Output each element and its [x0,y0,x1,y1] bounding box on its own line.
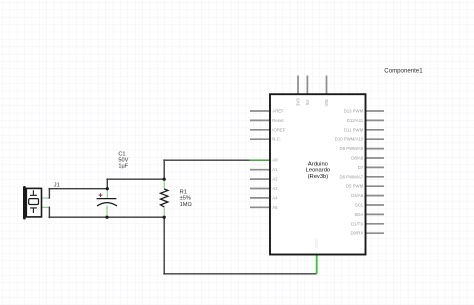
wire bottom rail C1 to R1 [107,216,164,218]
pin D10 PWM/A10 [366,138,385,140]
svg-text:VIN: VIN [324,99,329,106]
pin D7 [366,166,385,168]
pin 2 of J1 [42,206,49,208]
svg-text:D10 PWM/A10: D10 PWM/A10 [335,137,364,142]
pin D9 PWM/A9 [366,148,385,150]
svg-text:D0/RX: D0/RX [351,231,364,236]
pin A4 [250,197,270,199]
svg-text:A4: A4 [272,195,278,200]
svg-text:D13 PWM: D13 PWM [344,109,364,114]
svg-text:A1: A1 [272,167,278,172]
pin - of C1 [106,206,108,218]
junction C1 bottom [105,216,108,219]
pin A5 [250,206,270,208]
pin GND connected [316,255,318,274]
svg-text:D7: D7 [358,165,364,170]
wire R1 top junction to Arduino A0 [163,159,249,179]
piezo J1 [23,186,49,220]
pin A0 connected [250,159,271,161]
right pin labels [335,109,364,236]
Arduino U1 Componente1 [250,76,385,274]
resistor R1 [161,179,168,217]
pin D5 PWM [366,185,385,187]
svg-text:D11 PWM: D11 PWM [344,127,364,132]
curved plate [97,203,117,206]
svg-text:Reset: Reset [272,118,284,123]
svg-text:Componente1: Componente1 [384,68,423,75]
svg-text:(Rev3b): (Rev3b) [308,174,329,180]
left pin labels [272,109,286,210]
junction C1 top [106,187,109,190]
pin D4/A6 [366,195,385,197]
svg-text:D4/A6: D4/A6 [351,193,364,198]
svg-text:GND: GND [314,238,319,248]
pin VIN [326,76,328,95]
pin AREF [250,110,270,112]
svg-text:Arduino: Arduino [308,162,328,168]
svg-text:1µF: 1µF [118,163,128,169]
wire C1 top junction to R1 top junction [106,178,164,189]
svg-text:5V: 5V [305,100,310,105]
junction R1 bottom [163,216,166,219]
pin A2 [250,178,270,180]
svg-text:A0: A0 [272,158,278,163]
wire J1 bottom pin to bottom rail [48,207,107,218]
top plate [97,198,117,200]
pin D12/A11 [366,119,385,121]
pin 1 of R1 [163,179,165,189]
plus sign [99,193,103,197]
pin A1 [250,169,270,171]
top pin labels [296,98,330,107]
pin D1/TX [366,223,385,225]
pin A3 [250,188,270,190]
svg-text:J1: J1 [54,182,60,188]
pin D13 PWM [366,110,385,112]
top electrode [30,190,37,195]
svg-text:D8/A8: D8/A8 [351,156,364,161]
pin N.C. [250,138,270,140]
svg-text:Leonardo: Leonardo [306,168,331,174]
svg-text:SCL: SCL [355,203,364,208]
svg-text:A2: A2 [272,177,278,182]
svg-text:1MΩ: 1MΩ [180,202,192,208]
pin SDA [366,213,385,215]
pin + of C1 [106,189,108,198]
svg-text:R1: R1 [180,189,187,195]
chip body [270,94,366,254]
svg-text:D1/TX: D1/TX [351,221,363,226]
pin D6 PWM/A7 [366,176,385,178]
svg-text:A5: A5 [272,205,278,210]
svg-text:D5 PWM: D5 PWM [346,184,364,189]
svg-text:D12/A11: D12/A11 [347,118,364,123]
pin D0/RX [366,232,385,234]
svg-text:3V3: 3V3 [296,98,301,106]
wire J1 top pin to C1 top junction [48,188,107,198]
pin Reset [250,119,270,121]
body [26,188,41,217]
svg-text:N.C.: N.C. [272,137,281,142]
pin IOREF [250,129,270,131]
bottom electrode [30,208,37,213]
pin D8/A8 [366,157,385,159]
svg-text:A3: A3 [272,186,278,191]
svg-text:D9 PWM/A9: D9 PWM/A9 [340,146,364,151]
svg-text:D6 PWM/A7: D6 PWM/A7 [340,174,364,179]
wire R1 bottom junction to Arduino GND [163,217,317,275]
pin 1 of J1 [42,197,49,199]
svg-text:SDA: SDA [354,212,363,217]
zigzag [161,189,168,207]
svg-text:AREF: AREF [272,109,284,114]
pin 5V [306,76,308,95]
capacitor C1 [97,189,117,218]
crystal slab [29,199,39,205]
svg-text:±5%: ±5% [180,196,191,202]
pin SCL [366,204,385,206]
junction R1 top [163,178,166,181]
diaphragm bar [23,186,26,220]
chip title [306,162,331,180]
pin D11 PWM [366,129,385,131]
svg-text:IOREF: IOREF [272,127,286,132]
pin 2 of R1 [163,207,165,217]
pin 3V3 [297,76,299,95]
